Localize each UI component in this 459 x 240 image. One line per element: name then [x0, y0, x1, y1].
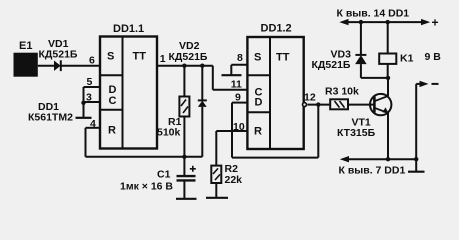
wire D input pin 9 (from feedback) — [232, 92, 247, 104]
svg-text:R: R — [254, 126, 262, 138]
svg-text:1мк × 16 В: 1мк × 16 В — [120, 181, 173, 193]
diode VD1 — [39, 38, 78, 71]
node collector/K1/VD3 junction — [386, 76, 390, 80]
wire D input pin 5 — [84, 76, 101, 88]
svg-text:+: + — [432, 16, 439, 30]
svg-text:6: 6 — [89, 55, 95, 67]
svg-text:S: S — [254, 52, 261, 64]
diode VD2 — [169, 40, 208, 157]
node feedback junction — [316, 102, 320, 106]
diode VD3 — [312, 22, 389, 78]
capacitor C1 — [120, 157, 196, 199]
ground at bottom right — [408, 171, 425, 173]
svg-text:5: 5 — [87, 76, 93, 88]
wire S input pin 8 to common — [231, 52, 247, 75]
svg-text:D: D — [255, 97, 263, 109]
svg-text:22k: 22k — [225, 174, 243, 186]
wire feedback pin 12 to pin 9 — [232, 103, 318, 158]
label DD1 К561ТМ2 — [28, 101, 73, 124]
wire R input pin 4 to bus — [86, 118, 203, 157]
wire VD1 to DD1.1 pin 6 — [61, 55, 100, 67]
relay K1 — [379, 22, 413, 78]
svg-text:9 В: 9 В — [425, 51, 442, 63]
transistor VT1 — [337, 78, 391, 159]
svg-text:КД521Б: КД521Б — [39, 49, 78, 61]
wire E1 to VD1 — [38, 65, 54, 67]
svg-text:11: 11 — [231, 79, 242, 91]
ground at R2 — [206, 197, 228, 199]
svg-text:C1: C1 — [157, 169, 171, 181]
wire R input pin 10 to R2 — [216, 121, 247, 166]
op-amp/flip-flop DD1.1 — [100, 23, 157, 149]
svg-text:TT: TT — [276, 52, 290, 64]
resistor R3 10k — [325, 86, 374, 110]
svg-text:510k: 510k — [157, 127, 181, 139]
node minus at rail — [414, 157, 418, 161]
svg-text:К выв. 14 DD1: К выв. 14 DD1 — [337, 8, 410, 20]
resistor R2 22k — [211, 163, 242, 198]
svg-text:R: R — [108, 125, 116, 137]
svg-text:R3 10k: R3 10k — [325, 86, 359, 98]
wire pin 1 output to DD1.2 pin 11 — [157, 53, 247, 91]
node R1 top — [182, 63, 186, 67]
wire +9V rail — [337, 8, 439, 30]
ground common at pins 5,3 — [76, 117, 92, 119]
svg-text:9: 9 — [235, 92, 241, 104]
wire common bottom rail — [339, 156, 417, 177]
svg-text:КТ315Б: КТ315Б — [337, 127, 376, 139]
flip-flop DD1.2 — [247, 23, 303, 150]
svg-text:К561ТМ2: К561ТМ2 — [28, 112, 73, 124]
node pin3 junction — [81, 101, 85, 105]
svg-text:E1: E1 — [19, 40, 32, 52]
svg-text:8: 8 — [237, 52, 243, 64]
svg-text:К выв. 7 DD1: К выв. 7 DD1 — [339, 165, 406, 177]
wire C input pin 3 — [84, 92, 101, 104]
svg-text:12: 12 — [304, 92, 316, 104]
svg-text:КД521Б: КД521Б — [169, 51, 208, 63]
svg-text:TT: TT — [133, 51, 147, 63]
svg-text:4: 4 — [90, 118, 96, 130]
node C1 top — [182, 155, 186, 159]
svg-text:КД521Б: КД521Б — [312, 59, 351, 71]
svg-text:S: S — [107, 51, 114, 63]
svg-text:10: 10 — [233, 121, 245, 133]
sensor E1 — [14, 40, 38, 77]
svg-text:3: 3 — [86, 92, 92, 104]
node K1 at +rail — [386, 20, 390, 24]
ground common at pin 8 — [222, 74, 242, 76]
svg-text:K1: K1 — [400, 53, 414, 65]
svg-text:1: 1 — [160, 53, 166, 65]
node emitter at rail — [386, 157, 390, 161]
svg-text:C: C — [109, 95, 117, 107]
svg-text:DD1.2: DD1.2 — [261, 23, 292, 35]
ground at C1 — [176, 198, 197, 200]
node VD2 top — [200, 63, 204, 67]
wire -9V branch — [416, 81, 438, 172]
resistor R1 510k — [157, 66, 189, 157]
node VD3 at +rail — [359, 20, 363, 24]
wire pins 5,3 to common — [83, 87, 85, 118]
svg-text:DD1.1: DD1.1 — [113, 23, 144, 35]
inverted output pin 12 of DD1.2 — [303, 92, 331, 107]
